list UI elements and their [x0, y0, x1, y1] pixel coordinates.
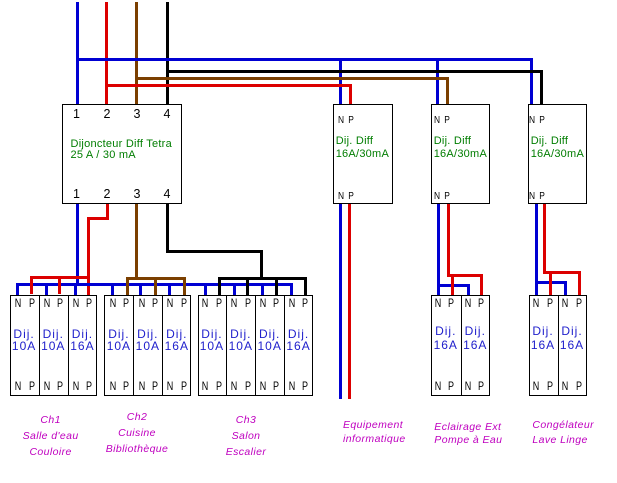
pin label N (bottom) of G3 breaker1: [202, 380, 209, 392]
value label G1 breaker3 line 2: [70, 340, 94, 352]
value label G3 breaker4 line 2: [286, 340, 310, 352]
pin label P (top) of G1 breaker2: [57, 297, 63, 309]
value label G2 breaker3 line 1: [166, 328, 187, 340]
wire: blue neutral drop 10 into breaker N terminal: [290, 283, 293, 295]
divider between G4 breaker1 and breaker2: [461, 295, 462, 396]
pin label N (top) of G2 breaker2: [138, 297, 145, 309]
wire: red phase jog over G4: [447, 274, 483, 277]
wire: blue drop into U3 terminal N: [436, 58, 439, 104]
wire: blue neutral from U2 down to equipment load: [339, 204, 342, 399]
pin label P (bottom) of G4 breaker2: [478, 380, 484, 392]
pin label P (bottom) of G5 breaker1: [546, 380, 552, 392]
pin label N (bottom) of G1 breaker3: [73, 380, 80, 392]
wire: black drop into U4 terminal P: [540, 70, 543, 104]
pin label P (bottom) of G1 breaker1: [28, 380, 34, 392]
pin label P (top) of G5 breaker1: [546, 297, 552, 309]
value label G1 breaker1 line 2: [12, 340, 36, 352]
value label G2 breaker3 line 2: [165, 340, 189, 352]
divider between G3 breaker1 and breaker2: [226, 295, 227, 396]
pin label P (top) of G4 breaker1: [448, 297, 454, 309]
wire: black phase from U1 pin4 down (segment 1): [166, 204, 169, 253]
pin 4 (top) of U1: [164, 108, 171, 121]
pin label N (top) of U3: [434, 115, 440, 126]
pin label N (top) of G5 breaker1: [532, 297, 539, 309]
pin label P (top) of G3 breaker1: [216, 297, 222, 309]
value label G5 breaker1 line 2: [531, 339, 555, 351]
wire: red phase bus over breaker group 1: [30, 276, 90, 279]
divider between G3 breaker2 and breaker3: [255, 295, 256, 396]
pin 4 (bottom) of U1: [164, 188, 171, 201]
pin label P (top) of G1 breaker1: [28, 297, 34, 309]
pin 1 (bottom) of U1: [73, 188, 80, 201]
wire: black phase bus over breaker group 3: [218, 277, 307, 280]
wire: black phase bus horizontal to U4: [166, 70, 543, 73]
wire: blue neutral drop 1 into breaker N terminal: [16, 283, 19, 295]
pin label N (top) of G1 breaker3: [73, 297, 80, 309]
pin label N (top) of U4: [529, 115, 535, 126]
wire: blue neutral drop 3 into breaker N terminal: [74, 283, 77, 295]
value label G1 breaker1 line 1: [13, 328, 34, 340]
wire: red drop into U2 terminal P: [349, 84, 352, 104]
net label: Eclairage Ext Pompe a Eau: [434, 421, 502, 447]
value label U4 line 1: [531, 136, 569, 147]
wire: red drop to G5 breaker1 P: [549, 271, 552, 295]
value label G4 breaker2 line 2: [463, 339, 487, 351]
divider between G5 breaker1 and breaker2: [558, 295, 559, 396]
wire: blue neutral drop 5 into breaker N terminal: [139, 283, 142, 295]
wire: blue neutral bus over breaker groups 1-3: [16, 283, 293, 286]
pin 3 (top) of U1: [134, 108, 141, 121]
pin label P (bottom) of G1 breaker3: [86, 380, 92, 392]
pin label P (top) of U2: [348, 115, 354, 126]
wire: red drop to G1 breaker1 P: [30, 276, 33, 294]
pin label P (bottom) of U2: [348, 191, 354, 202]
breaker group G1 outline: [10, 295, 98, 396]
divider between G3 breaker3 and breaker4: [284, 295, 285, 396]
value label G2 breaker2 line 1: [137, 328, 158, 340]
pin label P (bottom) of G2 breaker2: [152, 380, 158, 392]
value label G1 breaker2 line 1: [43, 328, 64, 340]
pin label P (bottom) of G3 breaker4: [302, 380, 308, 392]
pin label P (bottom) of U4: [539, 191, 545, 202]
net label: circuit Ch1 Salle d'eau Couloire: [23, 413, 79, 460]
value label U3 line 2: [434, 149, 487, 160]
wire: incoming phase 2 feed (red) vertical: [105, 2, 108, 104]
value label U2 line 2: [336, 149, 389, 160]
net label: circuit Ch2 Cuisine Bibliotheque: [106, 410, 169, 457]
value label G2 breaker1 line 1: [108, 328, 129, 340]
pin 3 (bottom) of U1: [134, 188, 141, 201]
pin label P (top) of G2 breaker2: [152, 297, 158, 309]
wire: red phase jog left below U1: [87, 217, 109, 220]
value label G4 breaker2 line 1: [465, 325, 486, 337]
wire: red phase down to breaker group 1 (also feeds red bus): [87, 217, 90, 295]
pin label N (bottom) of G1 breaker1: [15, 380, 22, 392]
wire: black drop to G3 breaker1 P: [218, 277, 221, 295]
divider between G2 breaker2 and breaker3: [162, 295, 163, 396]
pin label N (bottom) of U2: [337, 191, 343, 202]
pin label N (bottom) of G1 breaker2: [44, 380, 51, 392]
pin 2 (bottom) of U1: [104, 188, 111, 201]
wire: black phase down to black bus: [260, 250, 263, 279]
wire: blue neutral jog to G5 breaker2: [535, 281, 568, 284]
wire: incoming phase 1 feed (blue) vertical: [76, 2, 79, 104]
wire: red phase from U3 down: [447, 204, 450, 277]
differential breaker U3 Dij. Diff 16A/30mA (Eclairage Ext / Pompe a Eau): [431, 104, 490, 204]
wire: red phase from U2 down to equipment load: [348, 204, 351, 399]
net label: Congelateur Lave Linge: [532, 418, 594, 447]
wire: red phase jog over G5: [543, 271, 581, 274]
wire: brown drop to G2 breaker3 P: [183, 277, 186, 295]
value label G1 breaker3 line 1: [72, 328, 93, 340]
differential breaker U4 Dij. Diff 16A/30mA (Congelateur / Lave Linge): [528, 104, 587, 204]
pin label N (top) of G1 breaker1: [15, 297, 22, 309]
pin label N (top) of G4 breaker1: [435, 297, 442, 309]
pin label N (bottom) of G5 breaker2: [562, 380, 569, 392]
pin 1 (top) of U1: [73, 108, 80, 121]
pin label P (bottom) of G2 breaker1: [123, 380, 129, 392]
wire: brown phase from U1 pin3 down to brown bus: [135, 204, 138, 280]
wire: blue drop to G4 breaker2 N: [467, 284, 470, 295]
net label: Equipement informatique: [343, 418, 406, 447]
wire: brown phase bus horizontal to U3: [135, 77, 449, 80]
value label U2 line 1: [336, 136, 374, 147]
wire: red drop to G4 breaker2 P: [480, 274, 483, 295]
wire: blue neutral from U1 pin1 down to bottom neutral bus: [76, 204, 79, 286]
pin label P (bottom) of G3 breaker1: [216, 380, 222, 392]
pin label N (top) of U2: [337, 115, 343, 126]
wire: blue neutral drop 8 into breaker N terminal: [233, 283, 236, 295]
wire: red drop to G1 breaker2 P: [58, 276, 61, 294]
wire: blue neutral bus horizontal to differential breakers: [76, 58, 533, 61]
value label G3 breaker4 line 1: [288, 328, 309, 340]
pin label P (bottom) of U3: [444, 191, 450, 202]
wire: blue drop into U2 terminal N: [339, 58, 342, 104]
pin label N (bottom) of G2 breaker1: [109, 380, 116, 392]
pin label P (top) of G2 breaker3: [181, 297, 187, 309]
divider between G2 breaker1 and breaker2: [133, 295, 134, 396]
value label G4 breaker1 line 1: [435, 325, 456, 337]
pin label P (bottom) of G3 breaker2: [244, 380, 250, 392]
wire: blue neutral drop 7 into breaker N terminal: [204, 283, 207, 295]
value label G5 breaker2 line 1: [561, 325, 582, 337]
pin label P (bottom) of G3 breaker3: [273, 380, 279, 392]
wire: blue neutral drop 9 into breaker N terminal: [261, 283, 264, 295]
pin label N (bottom) of U4: [529, 191, 535, 202]
value label G2 breaker1 line 2: [107, 340, 131, 352]
pin label P (top) of G3 breaker2: [244, 297, 250, 309]
value label G1 breaker2 line 2: [41, 340, 65, 352]
value label G3 breaker1 line 1: [201, 328, 222, 340]
pin label N (top) of G3 breaker1: [202, 297, 209, 309]
divider between G1 breaker1 and breaker2: [39, 295, 40, 396]
pin label P (bottom) of G2 breaker3: [181, 380, 187, 392]
wire: blue neutral drop 2 into breaker N terminal: [45, 283, 48, 295]
wire: blue neutral drop 4 into breaker N terminal: [111, 283, 114, 295]
value label U1 line 2: [71, 150, 136, 161]
pin label N (bottom) of G3 breaker4: [289, 380, 296, 392]
pin label N (bottom) of G2 breaker2: [138, 380, 145, 392]
pin label N (bottom) of U3: [434, 191, 440, 202]
pin 2 (top) of U1: [104, 108, 111, 121]
wire: incoming phase 4 feed (black) vertical: [166, 2, 169, 104]
pin label N (bottom) of G5 breaker1: [532, 380, 539, 392]
value label G5 breaker2 line 2: [560, 339, 584, 351]
value label G3 breaker2 line 2: [229, 340, 253, 352]
main differential breaker U1 Dijoncteur Diff Tetra 25A/30mA: [62, 104, 182, 204]
wire: red phase bus horizontal to U2: [105, 84, 351, 87]
value label G3 breaker3 line 2: [258, 340, 282, 352]
wire: blue neutral drop 6 into breaker N terminal: [168, 283, 171, 295]
pin label N (top) of G4 breaker2: [465, 297, 472, 309]
breaker group G3 outline: [198, 295, 314, 396]
wire: black drop to G3 breaker2 P: [246, 277, 249, 295]
pin label P (top) of U3: [444, 115, 450, 126]
pin label N (bottom) of G2 breaker3: [167, 380, 174, 392]
value label G2 breaker2 line 2: [136, 340, 160, 352]
wire: blue neutral jog to G4 breaker2: [437, 284, 470, 287]
wire: blue drop to G5 breaker2 N: [564, 281, 567, 295]
wire: red drop to G5 breaker2 P: [578, 271, 581, 295]
value label G3 breaker3 line 1: [259, 328, 280, 340]
pin label P (top) of G3 breaker4: [302, 297, 308, 309]
pin label P (top) of G1 breaker3: [86, 297, 92, 309]
pin label N (top) of G2 breaker3: [167, 297, 174, 309]
divider between G1 breaker2 and breaker3: [68, 295, 69, 396]
pin label P (top) of G3 breaker3: [273, 297, 279, 309]
pin label N (top) of G2 breaker1: [109, 297, 116, 309]
pin label P (bottom) of G5 breaker2: [576, 380, 582, 392]
pin label N (bottom) of G3 breaker2: [231, 380, 238, 392]
pin label P (top) of G5 breaker2: [576, 297, 582, 309]
wire: blue neutral from U3 down to G4 breaker1 N: [437, 204, 440, 295]
pin label N (bottom) of G4 breaker1: [435, 380, 442, 392]
value label G5 breaker1 line 1: [532, 325, 553, 337]
wire: brown phase bus over breaker group 2: [126, 277, 187, 280]
value label G3 breaker2 line 1: [230, 328, 251, 340]
pin label P (bottom) of G4 breaker1: [448, 380, 454, 392]
wire: brown drop to G2 breaker1 P: [126, 277, 129, 295]
breaker group G2 outline: [104, 295, 191, 396]
pin label P (top) of G2 breaker1: [123, 297, 129, 309]
net label: circuit Ch3 Salon Escalier: [226, 413, 267, 460]
pin label N (top) of G3 breaker2: [231, 297, 238, 309]
wire: red phase from U4 down: [543, 204, 546, 274]
pin label N (bottom) of G3 breaker3: [260, 380, 267, 392]
breaker group G5 outline: [529, 295, 587, 396]
pin label N (top) of G1 breaker2: [44, 297, 51, 309]
value label U1 line 1: [71, 139, 172, 150]
wire: black phase horizontal jog right: [166, 250, 263, 253]
pin label N (top) of G5 breaker2: [562, 297, 569, 309]
wire: red phase from U1 pin2 down (segment 1): [106, 204, 109, 220]
breaker group G4 outline: [431, 295, 490, 396]
wire: blue drop into U4 terminal N: [530, 58, 533, 104]
value label G3 breaker1 line 2: [200, 340, 224, 352]
pin label P (top) of G4 breaker2: [478, 297, 484, 309]
wire: black drop to G3 breaker3 P: [275, 277, 278, 295]
value label U4 line 2: [531, 149, 584, 160]
value label G4 breaker1 line 2: [434, 339, 458, 351]
wire: brown drop to G2 breaker2 P: [154, 277, 157, 295]
pin label N (bottom) of G4 breaker2: [465, 380, 472, 392]
wire: black drop to G3 breaker4 P: [304, 277, 307, 295]
pin label P (top) of U4: [539, 115, 545, 126]
wire: brown drop into U3 terminal P: [446, 77, 449, 104]
value label U3 line 1: [434, 136, 472, 147]
wire: blue neutral from U4 down to G5 breaker1 N: [535, 204, 538, 295]
wire: incoming phase 3 feed (brown) vertical: [135, 2, 138, 104]
differential breaker U2 Dij. Diff 16A/30mA (Equipement informatique): [333, 104, 393, 204]
pin label N (top) of G3 breaker4: [289, 297, 296, 309]
pin label N (top) of G3 breaker3: [260, 297, 267, 309]
wire: red drop to G4 breaker1 P: [451, 274, 454, 295]
pin label P (bottom) of G1 breaker2: [57, 380, 63, 392]
